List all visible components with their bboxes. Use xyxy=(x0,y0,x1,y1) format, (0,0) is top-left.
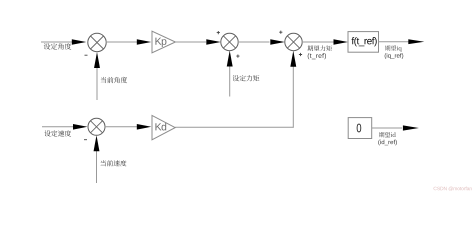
plus sign S3 bottom xyxy=(299,53,302,56)
minus sign S4 xyxy=(84,139,87,141)
wire Kd to corner xyxy=(175,126,293,128)
wire feedback current-angle xyxy=(96,67,98,100)
summing junction S1 xyxy=(88,33,106,51)
summing junction S3 xyxy=(285,33,302,50)
wire corner up to S3 xyxy=(292,65,294,128)
arrow into summing junction S1 xyxy=(72,39,87,45)
arrow into summing junction S4 xyxy=(73,124,88,130)
minus sign S1 xyxy=(85,54,88,56)
wire feedback current-speed xyxy=(96,151,98,184)
arrow output id_ref xyxy=(403,125,419,130)
plus sign S3 top xyxy=(279,31,282,34)
label 设定力矩 (set torque) xyxy=(233,75,260,81)
label 0 xyxy=(357,124,362,133)
label (t_ref) xyxy=(308,53,326,59)
wire input set-angle xyxy=(41,41,72,43)
arrow into Kp xyxy=(137,39,152,45)
label (iq_ref) xyxy=(385,53,404,59)
label Kd xyxy=(155,123,166,131)
label 设定速度 (set speed) xyxy=(44,130,71,136)
arrow output iq_ref xyxy=(408,39,424,44)
arrow into summing junction S3 xyxy=(270,39,285,45)
summing junction S4 xyxy=(88,118,105,135)
arrow Kd path into S3 xyxy=(290,51,296,67)
wire f block output xyxy=(379,41,410,43)
summing junction S2 xyxy=(221,33,238,50)
plus sign S2 bottom xyxy=(236,55,239,58)
label 当前角度 (current angle) xyxy=(101,77,127,83)
wire S2 to S3 xyxy=(238,41,270,43)
label f(t_ref) xyxy=(352,37,377,46)
arrow current-speed into S4 xyxy=(94,135,100,151)
function block f(t_ref) xyxy=(348,32,379,53)
wire Kp to S2 xyxy=(175,41,206,43)
wire input set-speed xyxy=(42,126,73,128)
wire S1 to Kp xyxy=(106,41,138,43)
label 期望iq (desired iq) xyxy=(385,45,402,51)
arrow into summing junction S2 xyxy=(206,39,221,45)
label 当前速度 (current speed) xyxy=(101,160,127,166)
label Kp xyxy=(155,38,166,47)
plus sign S2 top xyxy=(217,31,220,34)
wire 0 block output xyxy=(372,127,402,129)
gain block Kd xyxy=(152,115,175,139)
constant block 0 xyxy=(348,118,372,139)
gain block Kp xyxy=(152,31,175,53)
wire S4 to Kd xyxy=(105,126,138,128)
wire input set-torque xyxy=(229,66,231,97)
wire S3 to f block xyxy=(302,41,334,43)
watermark CSDN xyxy=(434,187,472,191)
label (id_ref) xyxy=(378,140,397,146)
arrow into Kd xyxy=(137,124,152,130)
arrow current-angle into S1 xyxy=(94,52,100,68)
arrow into f block xyxy=(334,39,349,45)
label 设定角度 (set angle) xyxy=(44,43,71,50)
label 期望力矩 (desired torque) xyxy=(307,45,332,51)
label 期望id (desired id) xyxy=(379,132,396,137)
arrow set-torque into S2 xyxy=(227,51,233,67)
